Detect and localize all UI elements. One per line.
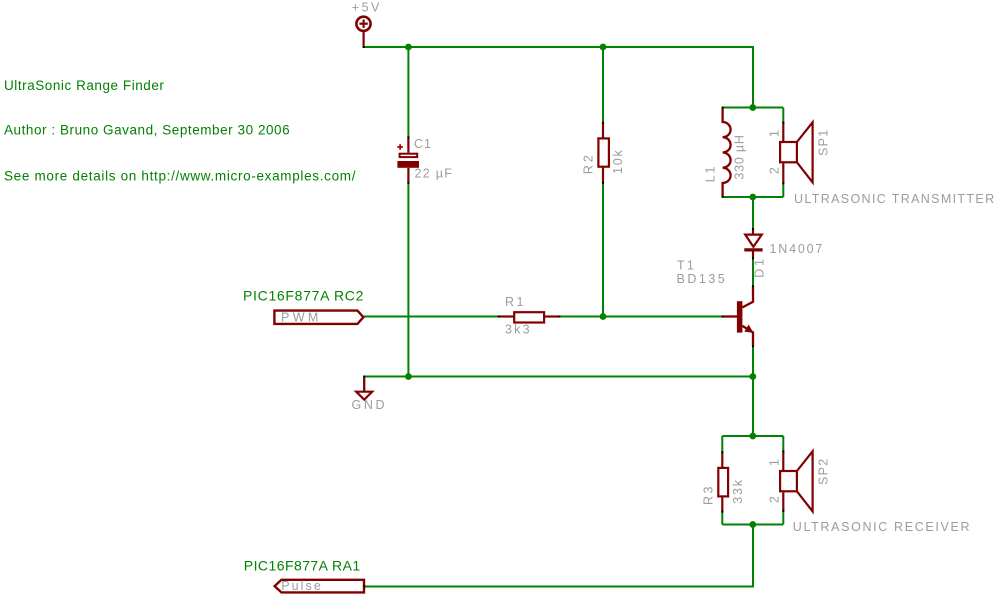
- wire SP2 pin1 stub: [782, 436, 784, 451]
- inductor L1: [723, 108, 731, 198]
- svg-text:PWM: PWM: [281, 311, 322, 325]
- svg-text:GND: GND: [352, 398, 388, 412]
- junction transmitter bottom: [749, 194, 756, 201]
- svg-text:R1: R1: [505, 295, 526, 309]
- svg-text:L1: L1: [704, 165, 718, 183]
- svg-text:SP1: SP1: [817, 128, 831, 156]
- wire emitter down: [752, 346, 754, 377]
- junction top rail at R2: [600, 44, 607, 51]
- svg-text:1: 1: [768, 459, 782, 466]
- svg-text:BD135: BD135: [677, 272, 728, 286]
- svg-text:T1: T1: [677, 259, 696, 273]
- svg-text:Author : Bruno Gavand, Septemb: Author : Bruno Gavand, September 30 2006: [4, 123, 290, 138]
- svg-text:2: 2: [768, 496, 782, 503]
- svg-text:3k3: 3k3: [505, 323, 532, 337]
- svg-text:D1: D1: [753, 256, 767, 278]
- flag PWM: [274, 311, 363, 324]
- svg-text:PIC16F877A RA1: PIC16F877A RA1: [244, 557, 361, 573]
- ground symbol: [356, 377, 372, 400]
- resistor R3: [718, 452, 728, 512]
- wire transmitter top rail: [723, 107, 784, 109]
- wire C1 branch lower: [407, 183, 409, 377]
- wire pulse net: [365, 586, 755, 588]
- svg-text:R2: R2: [582, 152, 596, 174]
- wire gnd rail: [364, 376, 753, 378]
- speaker SP1: [780, 122, 813, 183]
- wire R2 branch upper: [602, 47, 604, 123]
- svg-text:UltraSonic Range Finder: UltraSonic Range Finder: [4, 78, 164, 93]
- svg-text:See more details on http://www: See more details on http://www.micro-exa…: [4, 169, 356, 184]
- svg-text:330 µH: 330 µH: [733, 134, 747, 179]
- wire transmitter to diode: [752, 197, 754, 229]
- junction gnd at emitter: [749, 373, 756, 380]
- svg-text:R3: R3: [702, 484, 716, 505]
- wire receiver top rail: [722, 435, 783, 437]
- flag Pulse: [275, 580, 364, 593]
- svg-text:ULTRASONIC TRANSMITTER: ULTRASONIC TRANSMITTER: [794, 192, 995, 206]
- svg-text:1N4007: 1N4007: [770, 242, 825, 256]
- wire gnd to receiver: [752, 377, 754, 437]
- wire SP1 pin2 stub: [782, 183, 784, 197]
- junction top rail at C1: [405, 44, 412, 51]
- svg-text:2: 2: [768, 167, 782, 174]
- wire top rail: [364, 46, 753, 48]
- junction receiver top: [749, 433, 756, 440]
- wire diode to collector: [752, 258, 754, 286]
- junction gnd at C1: [405, 373, 412, 380]
- svg-text:22 µF: 22 µF: [415, 167, 454, 181]
- wire R3 bottom stub: [721, 512, 723, 525]
- wire right branch to transmitter: [752, 46, 754, 108]
- resistor R2: [598, 123, 609, 184]
- junction transmitter top: [749, 104, 756, 111]
- capacitor C1: [397, 137, 419, 183]
- wire receiver down: [752, 525, 754, 587]
- wire SP1 pin1 stub: [782, 108, 784, 123]
- svg-text:Pulse: Pulse: [281, 579, 323, 593]
- supply +5V symbol: [356, 17, 370, 48]
- pin end ticks: [363, 46, 785, 588]
- svg-text:1: 1: [768, 130, 782, 137]
- svg-text:33k: 33k: [731, 478, 745, 504]
- wire SP2 pin2 stub: [782, 511, 784, 525]
- svg-text:SP2: SP2: [817, 457, 831, 485]
- junction receiver bottom: [749, 521, 756, 528]
- diode D1: [744, 229, 762, 258]
- junction base at R2: [600, 313, 607, 320]
- wire R1 to base: [559, 316, 723, 318]
- svg-text:C1: C1: [414, 137, 432, 151]
- svg-text:10k: 10k: [611, 148, 625, 174]
- transistor T1: [723, 286, 754, 346]
- wire receiver bottom rail: [722, 524, 783, 526]
- svg-text:ULTRASONIC RECEIVER: ULTRASONIC RECEIVER: [793, 520, 971, 534]
- wire base net: [364, 316, 499, 318]
- wire R2 branch lower: [602, 183, 604, 317]
- wire C1 branch upper: [407, 47, 409, 137]
- svg-text:+5V: +5V: [352, 1, 382, 15]
- speaker SP2: [780, 451, 813, 511]
- wire R3 top stub: [721, 436, 723, 452]
- resistor R1: [499, 312, 560, 322]
- wire transmitter bottom rail: [723, 196, 784, 198]
- svg-text:PIC16F877A RC2: PIC16F877A RC2: [243, 287, 364, 303]
